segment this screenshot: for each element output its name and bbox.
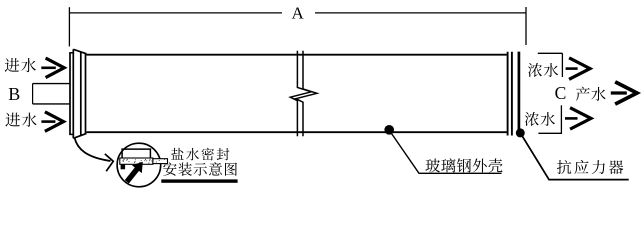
shell break symbol right line <box>296 51 317 137</box>
right end cap edge line <box>518 52 521 136</box>
label: feed water (bottom) char 进 <box>5 113 20 127</box>
C dimension bottom tick <box>538 132 561 134</box>
right end cap line 1 <box>507 52 509 136</box>
label: fiberglass shell char 玻 <box>425 158 440 172</box>
brine seal top lip <box>73 49 86 54</box>
C dimension line bottom segment <box>560 105 562 134</box>
brine seal detail leader curved arrow <box>75 138 111 161</box>
thrust ring callout leader <box>523 137 629 180</box>
svg-text:C: C <box>555 83 567 103</box>
brine seal outer line <box>69 53 71 135</box>
vessel shell top line <box>87 54 507 56</box>
right end cap line 2 <box>511 52 513 136</box>
left end cap line 1 <box>80 52 82 136</box>
label: brine seal char 盐 <box>171 148 183 160</box>
shell callout leader <box>392 134 502 174</box>
label: thrust ring char 器 <box>609 160 623 174</box>
label: concentrate (top) char 浓 <box>528 63 542 77</box>
shell break symbol left line <box>290 51 311 137</box>
vessel shell bottom line <box>87 131 508 133</box>
label: fiberglass shell char 钢 <box>457 158 471 172</box>
brine seal top tick <box>69 52 74 54</box>
label: feed water (bottom) char 水 <box>22 113 37 127</box>
feed water top arrow <box>41 67 56 70</box>
concentrate bottom arrow <box>565 117 578 120</box>
label: installation diagram char 意 <box>209 162 222 175</box>
label: product water char 产 <box>576 87 590 101</box>
B dimension top line <box>33 83 70 85</box>
seal band stipple <box>122 159 165 164</box>
label: concentrate (top) char 水 <box>544 63 558 77</box>
label: installation diagram char 图 <box>225 163 237 176</box>
label: installation diagram char 装 <box>178 162 191 175</box>
thrust ring callout dot <box>516 128 525 137</box>
label: installation diagram char 示 <box>194 163 207 176</box>
label: brine seal char 封 <box>217 148 230 160</box>
brine seal bottom lip <box>73 133 86 138</box>
brine seal detail circle <box>117 143 161 187</box>
product water arrow <box>611 91 627 94</box>
B dimension bottom line <box>33 103 70 105</box>
left end cap line 2 <box>85 54 87 134</box>
seal detail flow arrow <box>125 162 143 184</box>
label: installation diagram char 安 <box>163 162 176 175</box>
shell callout dot <box>384 125 394 135</box>
seal detail seal band <box>120 158 153 164</box>
label: concentrate (bottom) char 浓 <box>525 112 539 126</box>
seal detail groove <box>122 149 150 158</box>
seal detail lip tab <box>121 164 126 169</box>
label: thrust ring char 应 <box>574 160 588 174</box>
label: concentrate (bottom) char 水 <box>541 112 555 126</box>
label: brine seal char 密 <box>202 148 214 161</box>
label: fiberglass shell char 外 <box>473 158 487 172</box>
dimension A line left segment <box>69 12 282 14</box>
B dimension vertical line <box>32 84 34 104</box>
dimension A left extension line <box>68 7 70 46</box>
label: fiberglass shell char 壳 <box>488 158 502 172</box>
brine seal bottom tick <box>69 133 74 135</box>
label: fiberglass shell char 璃 <box>441 158 455 172</box>
concentrate top arrow <box>566 67 578 70</box>
label: brine seal char 水 <box>186 148 199 160</box>
svg-text:B: B <box>8 84 20 104</box>
label: feed water (top) char 水 <box>21 58 36 72</box>
label: thrust ring char 抗 <box>557 160 571 174</box>
label: product water char 水 <box>591 87 605 101</box>
C dimension top tick <box>538 52 563 54</box>
feed water bottom arrow <box>41 120 55 123</box>
dimension A right extension line <box>525 7 527 45</box>
C dimension line top segment <box>561 53 563 77</box>
label: feed water (top) char 进 <box>5 58 20 72</box>
seal label underline <box>161 179 237 182</box>
dimension A line right segment <box>315 12 526 14</box>
label: thrust ring char 力 <box>592 160 605 174</box>
brine seal inner line <box>72 49 74 138</box>
svg-text:A: A <box>292 3 305 22</box>
